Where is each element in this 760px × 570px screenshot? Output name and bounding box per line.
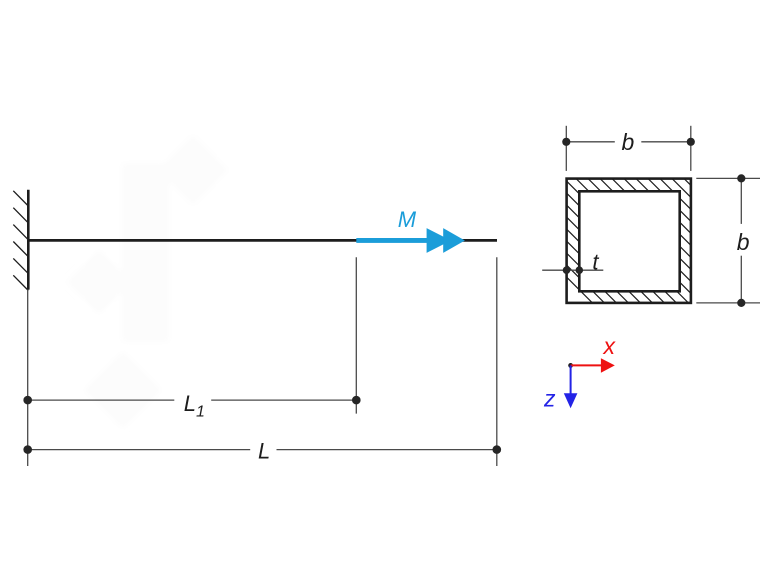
x axis line (red) (571, 364, 602, 366)
cross-section outer square (567, 179, 691, 303)
svg-text:b: b (737, 229, 750, 255)
wall hatch 6 (13, 275, 28, 290)
wall hatch 1 (13, 191, 28, 206)
moment arrow M head 2 (443, 228, 465, 253)
wall hatch 4 (13, 242, 28, 257)
thickness t dot inner wall (576, 266, 584, 274)
dimension dot L right (493, 445, 502, 454)
z axis arrowhead (564, 393, 578, 408)
svg-text:b: b (622, 129, 635, 155)
dimension dot b-top right (687, 138, 695, 146)
z axis line (blue) (570, 365, 572, 393)
dimension line b-right bottom segment (740, 256, 742, 303)
extension line mid (L1 right) (355, 257, 357, 413)
dimension dot L1 right (352, 396, 361, 405)
beam (28, 239, 497, 242)
dimension line L left segment (28, 449, 251, 451)
wall hatch 3 (13, 225, 28, 240)
cross-section hatching (tube wall) (450, 160, 760, 340)
extension line right (L right) (496, 257, 498, 466)
cross-section inner square (579, 191, 679, 291)
extension line left (27, 290, 29, 466)
x axis arrowhead (601, 358, 615, 373)
svg-text:M: M (398, 207, 417, 232)
svg-text:L: L (184, 391, 196, 416)
extension line b-top right (690, 126, 692, 171)
svg-text:t: t (592, 249, 599, 274)
thickness t dot outer wall (563, 266, 571, 274)
dimension dot L1 left (23, 396, 32, 405)
svg-text:1: 1 (196, 404, 205, 421)
moment arrow M head 1 (427, 228, 451, 253)
wall hatch 5 (13, 258, 28, 273)
svg-text:L: L (258, 438, 270, 463)
dimension line b-top right segment (641, 141, 691, 143)
axes origin (568, 363, 573, 368)
dimension dot b-right bottom (737, 299, 745, 307)
dimension line b-top left segment (566, 141, 615, 143)
dimension dot b-top left (562, 138, 570, 146)
thickness t leader line (542, 269, 603, 271)
wall hatch 2 (13, 208, 28, 223)
watermark shapes (very faint) (66, 135, 228, 429)
dimension dot L left (23, 445, 32, 454)
svg-text:z: z (543, 385, 556, 411)
extension line b-right bottom (696, 302, 760, 304)
svg-text:x: x (603, 333, 617, 359)
moment arrow M shaft (356, 238, 445, 243)
dimension line L right segment (277, 449, 497, 451)
fixed support wall (27, 190, 30, 290)
extension line b-right top (696, 177, 760, 179)
dimension dot b-right top (737, 174, 745, 182)
dimension line L1 left segment (28, 399, 175, 401)
dimension line b-right top segment (740, 178, 742, 224)
dimension line L1 right segment (211, 399, 356, 401)
extension line b-top left (565, 126, 567, 171)
